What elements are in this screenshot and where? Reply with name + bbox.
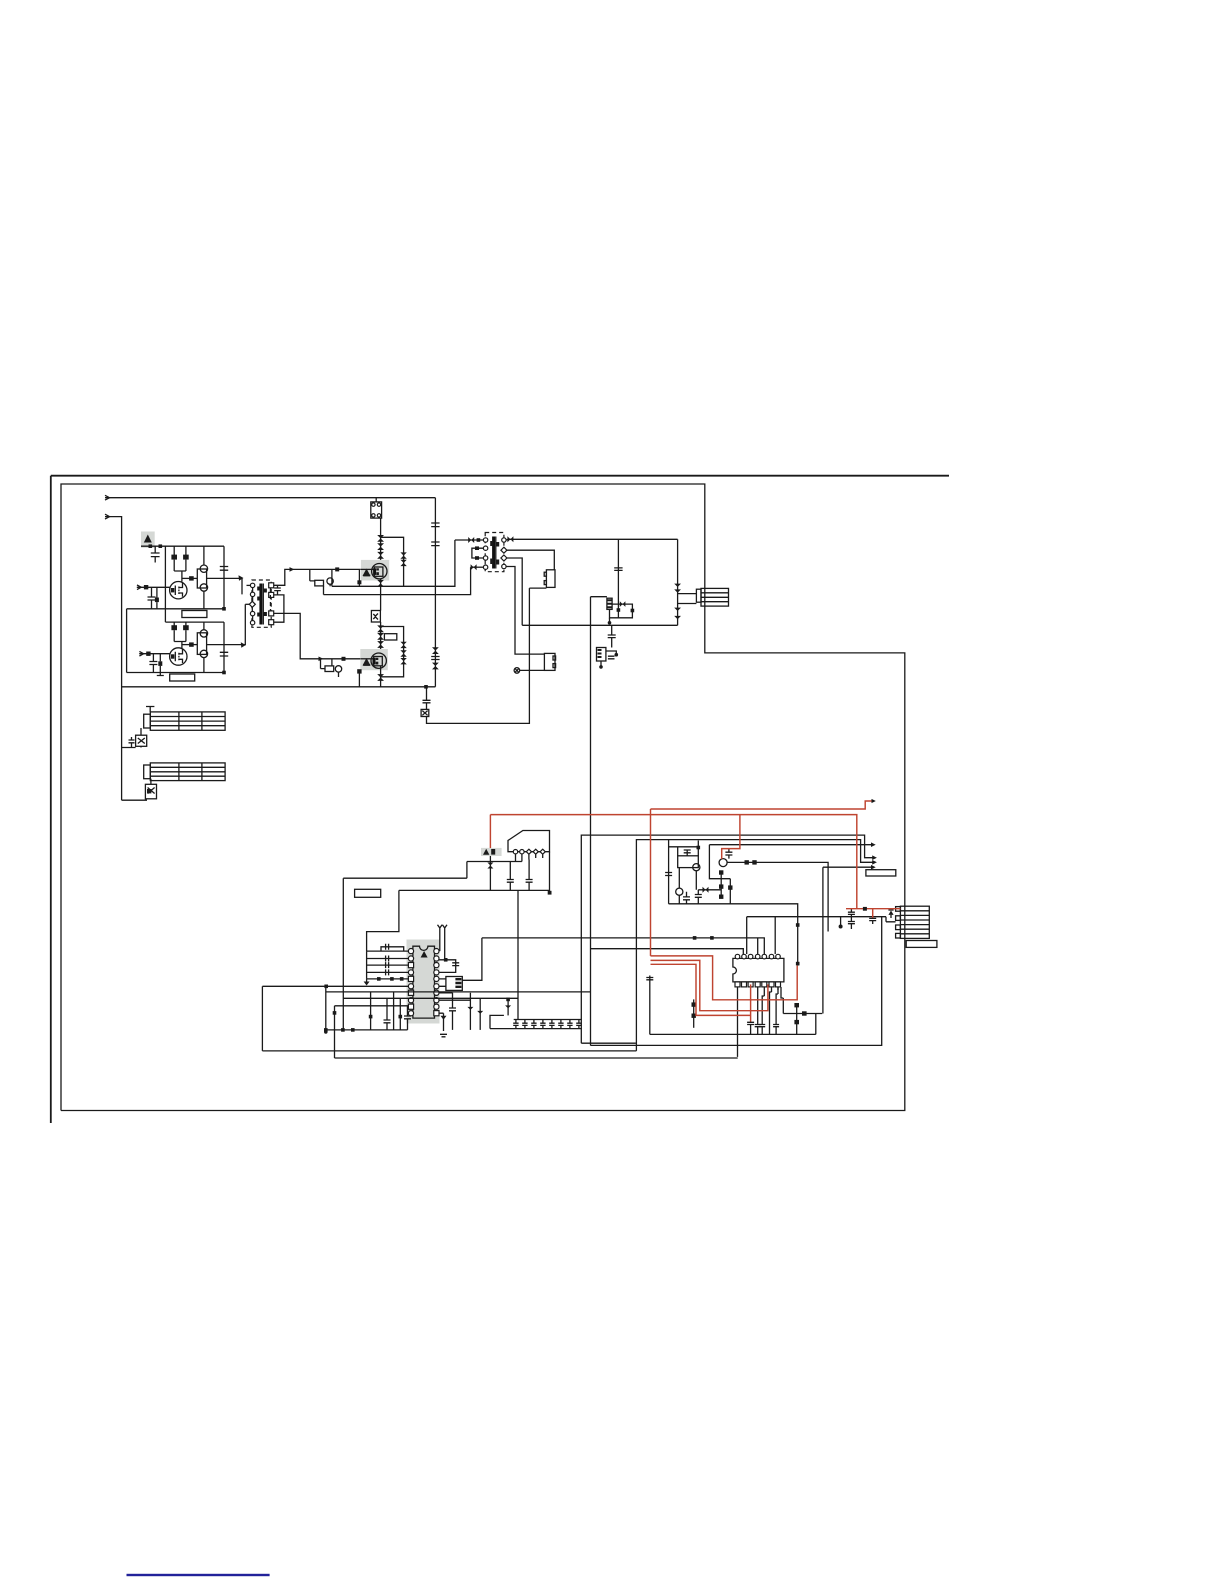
wire cell2 out xyxy=(207,604,246,644)
pin T2-4 xyxy=(483,565,487,569)
node gate2 arrow xyxy=(139,651,143,656)
transformer T1 body xyxy=(252,580,271,627)
wire sec pin6 out xyxy=(507,550,554,570)
filter FL1 xyxy=(546,570,555,588)
ic U4 pins left xyxy=(408,949,413,1016)
capacitor C25 xyxy=(386,956,389,962)
wire AC line 2 xyxy=(105,517,122,687)
wire feedback A xyxy=(467,861,522,863)
resistor array RA1 xyxy=(367,951,409,979)
connector CN2 xyxy=(900,906,929,938)
wire gate2 drive xyxy=(274,613,361,658)
box inner top xyxy=(636,840,874,1051)
vert V1 xyxy=(325,986,327,1032)
pin T1-7 square xyxy=(269,592,274,597)
warning triangle U4 xyxy=(421,951,428,958)
node AC-IN2 arrow xyxy=(105,514,110,519)
diode D18 xyxy=(507,999,509,1015)
diode D12 xyxy=(471,564,477,570)
resistor R4 xyxy=(182,577,197,579)
ic U4 highlight xyxy=(407,940,440,1024)
resistor block RB1 xyxy=(678,856,699,868)
SECTION: cell1 xyxy=(127,532,244,673)
diode D10 xyxy=(432,663,439,670)
label box REF2 xyxy=(170,674,195,681)
wire bulk rail xyxy=(434,498,436,687)
transistor K2 xyxy=(150,779,152,785)
wire cell1 out xyxy=(207,578,242,594)
wire main bottom bus xyxy=(122,686,436,688)
wire pin1 stub xyxy=(247,584,251,586)
transformer T2 body xyxy=(485,533,504,572)
pin T2-7 xyxy=(501,555,507,561)
SECTION: drvxfmr xyxy=(245,567,360,661)
wire red feedback top xyxy=(651,801,872,809)
gate2 network xyxy=(321,659,326,669)
wire R join xyxy=(174,571,186,582)
ic U6 top pins xyxy=(735,954,780,959)
capacitor C10 xyxy=(431,542,439,546)
node red arrow xyxy=(872,799,876,803)
wire L2 xyxy=(324,567,471,594)
wire U4 pin16 gnd xyxy=(439,1013,447,1037)
bottom long wire BL1 xyxy=(262,1050,636,1052)
pin PC1-5 xyxy=(540,849,545,854)
fuse F1 xyxy=(375,498,377,502)
capacitor C24 xyxy=(381,944,404,951)
wire red cap drop xyxy=(872,909,874,919)
resistor R6 xyxy=(185,622,187,626)
wire loop xyxy=(709,845,730,879)
wire U6 pin drops xyxy=(737,987,739,1057)
wire drain rail mid xyxy=(380,579,382,611)
connector CN2 stubs xyxy=(896,907,901,912)
resistor R18 xyxy=(693,999,695,1027)
diode D19 xyxy=(886,917,896,922)
pin T2-8 xyxy=(502,564,506,568)
link underline xyxy=(127,1574,270,1576)
border inner xyxy=(61,484,905,1111)
diode D9 xyxy=(432,647,439,654)
bottom bus BB xyxy=(326,1029,408,1031)
resistor R14 xyxy=(720,872,722,896)
capacitor C3 xyxy=(156,587,158,597)
bus B5 xyxy=(590,949,743,955)
wire cell1 bottom xyxy=(127,608,224,610)
node J3 xyxy=(222,671,226,675)
bottom wire BL4 xyxy=(590,917,881,1046)
ic U6 bottom pins xyxy=(735,982,781,987)
border outer left xyxy=(50,476,52,1123)
wire U3 out xyxy=(606,651,616,655)
capacitor C17 xyxy=(507,862,514,891)
label box REF3 xyxy=(384,634,396,640)
capacitor C19 xyxy=(665,873,672,876)
wire sec pin5 out xyxy=(506,538,677,541)
resistor R2 xyxy=(185,546,187,555)
wire pin3 in xyxy=(245,603,249,605)
warning label W1 xyxy=(141,532,155,548)
diode D5 xyxy=(377,625,384,632)
node arrow gate2 xyxy=(319,657,324,662)
wire caps left hook xyxy=(490,1015,504,1028)
wire base Q2 xyxy=(139,653,170,655)
mosfet Q8 xyxy=(360,658,373,660)
drop V7 capacitor xyxy=(404,1006,411,1030)
wire bus mid right xyxy=(747,916,886,918)
wire line E xyxy=(823,866,873,868)
bus B1 xyxy=(262,985,408,987)
wire long left vertical xyxy=(590,597,592,1046)
wire bus mid xyxy=(522,624,677,626)
diode D7 xyxy=(377,641,384,648)
resistor R17 xyxy=(796,1004,798,1035)
capacitor C30 xyxy=(848,909,855,917)
node arrow gate1 xyxy=(290,567,295,572)
wire pentagon right drop xyxy=(549,852,551,893)
resistor R12 xyxy=(617,608,621,612)
SECTION: rednet xyxy=(490,799,900,1035)
node J1 xyxy=(149,544,153,548)
resistor R13 xyxy=(631,609,635,613)
wire cell1 to cell2 feed xyxy=(164,546,166,622)
diode D13 xyxy=(507,536,513,542)
ic U4 pins right xyxy=(434,949,439,1016)
wire red supply xyxy=(490,815,856,909)
regulator U2 xyxy=(607,598,612,609)
ic U4 body xyxy=(413,946,435,1018)
diode D16 xyxy=(489,856,491,890)
connector table CN3 xyxy=(150,712,225,730)
diode D17 xyxy=(698,889,721,891)
gate1 network xyxy=(310,569,315,581)
resistor R7 xyxy=(146,652,150,656)
wire rail lower xyxy=(380,622,382,654)
wire FL1 bottom xyxy=(529,587,546,589)
resistor R16 xyxy=(783,1013,822,1015)
capacitor C27 xyxy=(386,969,389,975)
capacitor C21 xyxy=(683,892,690,904)
zener ZD1 xyxy=(469,993,471,1030)
wire left drop xyxy=(121,687,123,800)
wire RB1 top xyxy=(669,841,699,856)
wire feedback B xyxy=(343,862,467,879)
wire T1 pin stubs xyxy=(251,588,253,621)
wire cap rail xyxy=(646,976,653,1035)
SECTION: ic1area xyxy=(262,890,881,1058)
capacitor C2 xyxy=(148,587,156,609)
filter FL2 xyxy=(544,653,555,670)
regulator U3 xyxy=(597,648,606,662)
wire lower bus A xyxy=(399,889,550,891)
pin T2-1 xyxy=(483,538,487,542)
mosfet Q3 xyxy=(361,568,374,570)
bus B3 xyxy=(343,997,518,999)
label box REF6 xyxy=(906,941,937,948)
wire sec pin8 out xyxy=(506,567,544,655)
ground RA1 xyxy=(366,979,368,983)
wire red U6 pin drop xyxy=(750,984,752,1022)
capacitor C18 xyxy=(526,860,533,891)
wire S1 bottom xyxy=(669,904,798,917)
SECTION: mosfets xyxy=(310,498,530,724)
capacitor C5 xyxy=(149,654,157,673)
wire red main vertical xyxy=(650,809,652,956)
capacitor C20 xyxy=(684,850,691,856)
resistor R15 xyxy=(729,879,731,904)
pin T1-5 xyxy=(250,621,254,625)
SECTION: rightconn xyxy=(886,906,937,947)
pin T1-1 xyxy=(250,583,254,587)
wire PC1 pins down xyxy=(516,854,543,862)
amp sub-circuit: rail xyxy=(668,840,670,904)
wire primary pins 2-3 xyxy=(472,548,484,558)
diode D3 xyxy=(377,552,384,559)
wire base Q1 xyxy=(137,586,170,588)
SECTION: cell2 xyxy=(122,604,436,687)
wire U6 feeds xyxy=(747,917,776,954)
drop V5 xyxy=(393,992,395,1030)
pin T1-3 xyxy=(249,601,255,607)
node arrowE xyxy=(871,865,876,870)
pin T1-2 xyxy=(250,592,254,596)
wire red branch2 xyxy=(651,960,768,1010)
wire right of U4 xyxy=(439,993,470,1000)
bus B4 xyxy=(335,1005,409,1007)
node arrowA xyxy=(872,855,877,860)
pin T1-6 square xyxy=(269,583,274,588)
capacitor C29 xyxy=(449,993,456,1030)
pin PC1-4 xyxy=(533,849,538,854)
wire primary pin1 xyxy=(455,539,484,541)
ic U6 body xyxy=(733,958,784,982)
SECTION: bottomlink xyxy=(127,1574,270,1576)
jumper JP1 xyxy=(438,925,443,951)
resistor R8 xyxy=(182,644,197,646)
ground stub G3 xyxy=(840,917,842,926)
node J6 xyxy=(608,621,612,625)
wire cell1 top rail xyxy=(141,545,224,547)
snubber loop 2 xyxy=(381,627,404,677)
warning triangle Q8 xyxy=(363,658,371,666)
capacitor C6 xyxy=(159,654,161,662)
capacitor C1 xyxy=(151,546,160,562)
pin T2-5 xyxy=(502,538,506,542)
wire to resistor array xyxy=(367,890,399,951)
diode pair DP1 xyxy=(400,552,406,566)
zener ZD2 xyxy=(479,998,481,1030)
capacitor C12 xyxy=(423,687,431,710)
capacitor C28 xyxy=(452,963,459,966)
wire vert E xyxy=(822,867,824,1013)
capacitor C13 xyxy=(614,539,622,618)
pin T2-6 xyxy=(501,547,507,553)
transistor Q11 xyxy=(719,859,727,867)
border outer top xyxy=(51,475,949,477)
bottom step BL3 xyxy=(581,1042,636,1044)
ground stub U3 xyxy=(600,661,602,667)
wire to mid vertical xyxy=(427,588,530,723)
diode D8 xyxy=(377,674,384,681)
wire pins 7-9 loop xyxy=(274,595,284,622)
transistor Q9 xyxy=(693,864,700,871)
mosfet Q8 highlight xyxy=(360,649,388,670)
mosfet Q3 highlight xyxy=(361,560,389,581)
wire PC2 out xyxy=(462,938,482,980)
SECTION: output xyxy=(522,539,728,1045)
wire gate1 drive xyxy=(274,569,361,585)
node J4 xyxy=(424,685,428,689)
transistor Q2 xyxy=(170,648,187,665)
transistor Q1 xyxy=(170,582,187,599)
jumper JP2 xyxy=(442,925,447,959)
capacitor C31b xyxy=(848,917,855,929)
capacitor C32 xyxy=(869,918,876,924)
capacitor C4 xyxy=(220,546,228,609)
caps row rail xyxy=(514,1019,582,1021)
diode D4 xyxy=(377,580,384,587)
wire U4 right loop xyxy=(439,960,456,973)
pin T2-3 xyxy=(483,556,487,560)
node J2 xyxy=(222,607,226,611)
transistor pair Q6/Q7 xyxy=(197,633,206,655)
resistor R3 xyxy=(144,585,148,589)
resistor R11 xyxy=(475,556,479,560)
wire red to Q11 xyxy=(722,815,740,859)
node gate1 arrow xyxy=(137,585,141,590)
capacitor C16 xyxy=(129,737,135,748)
SECTION: mainxfmr xyxy=(455,533,678,674)
wire red branch1 xyxy=(651,956,798,1000)
capacitor C31 xyxy=(747,1022,754,1034)
drop V3 xyxy=(370,992,372,1030)
capacitor C23 xyxy=(725,849,732,859)
capacitor C11 xyxy=(431,657,439,660)
wire x797 stub xyxy=(797,917,799,966)
sense box RS1 xyxy=(371,611,380,623)
wire cell2 top rail xyxy=(165,621,224,623)
drop V6 xyxy=(399,998,401,1030)
optocoupler PC2 xyxy=(446,977,462,991)
capacitor C7 xyxy=(220,622,228,672)
wire rail to bus xyxy=(380,666,382,687)
node arrowC xyxy=(871,842,876,847)
capacitor C26 xyxy=(386,962,389,968)
snubber loop 1 xyxy=(381,537,404,586)
wire U2 out xyxy=(610,604,633,618)
wire L1 xyxy=(332,540,455,586)
photocoupler PC1 body xyxy=(508,831,550,852)
wire CN1 row3 xyxy=(678,603,697,605)
node AC-IN1 arrow xyxy=(105,495,110,500)
wire U2 in xyxy=(591,596,607,598)
pin T2-2 xyxy=(483,546,487,550)
resistor R10 xyxy=(475,546,479,550)
caps row CR xyxy=(513,1020,581,1029)
bottom long wire BL2 xyxy=(335,1057,738,1059)
wire Q11 emitter xyxy=(727,862,828,931)
resistor R5 xyxy=(173,622,175,626)
drop V4 capacitor xyxy=(384,998,391,1030)
vert V2 xyxy=(334,1006,336,1058)
wire primary pin4 xyxy=(471,566,484,568)
capacitor C14 xyxy=(608,625,616,647)
node J5 xyxy=(477,538,481,542)
wire sec pin7 out xyxy=(507,558,522,625)
wire AC line 1 xyxy=(105,497,435,499)
capacitor C9 xyxy=(431,523,439,527)
wire left long vertical xyxy=(342,878,344,1030)
wire R join 2 xyxy=(174,642,186,649)
rectifier D15 xyxy=(677,539,679,625)
thermistor TH1 xyxy=(421,709,429,716)
node out1 arrow xyxy=(239,575,244,581)
resistor R1 xyxy=(173,546,175,555)
diode D14 xyxy=(620,601,626,607)
diode D11 xyxy=(468,537,474,543)
wire CN3 stub xyxy=(146,707,154,712)
wire ground to box2 xyxy=(520,669,545,671)
capacitor C22 xyxy=(695,890,702,904)
SECTION: lower xyxy=(343,831,896,1051)
wire drain rail upper xyxy=(380,518,382,563)
SECTION: frame xyxy=(51,476,949,1123)
pin PC1-3 xyxy=(526,849,531,854)
wire left loop xyxy=(126,609,128,673)
wire cell2 bottom xyxy=(127,672,224,674)
SECTION: grids xyxy=(122,687,226,800)
pin PC1-2 xyxy=(520,850,524,854)
diode pair DP2 xyxy=(400,642,406,665)
transistor pair Q4/Q5 xyxy=(197,569,206,588)
resistor R9 xyxy=(358,671,360,686)
box outer top xyxy=(581,835,874,1043)
SECTION: ic2area xyxy=(646,909,886,1057)
warning label W2 xyxy=(481,848,502,856)
ground symbol GX xyxy=(514,668,520,674)
SECTION: topleft xyxy=(105,495,435,687)
wire red to CN2 xyxy=(846,908,900,910)
warning triangle Q3 xyxy=(363,569,371,577)
wire red branch3 xyxy=(651,964,751,1015)
connector CN1 xyxy=(696,589,701,602)
label box REF1 xyxy=(182,611,207,618)
label box REF5 xyxy=(866,870,896,876)
bus B2 xyxy=(326,991,591,993)
diode D1 xyxy=(377,535,384,542)
wire CN1 row1 xyxy=(678,593,697,595)
wire line C xyxy=(709,844,872,846)
transistor K1 xyxy=(140,728,142,735)
node bus squares xyxy=(377,977,381,981)
transistor Q10 xyxy=(676,888,683,895)
connector table CN4 xyxy=(150,763,225,781)
pin T1-4 xyxy=(250,611,254,615)
label box REF4 xyxy=(355,889,381,897)
pin T1-8 square xyxy=(269,611,274,616)
pin T1-9 square xyxy=(269,620,274,625)
diode D6 xyxy=(377,633,384,640)
vert mid V8 xyxy=(517,890,519,1019)
node arrowB xyxy=(872,860,877,865)
pin PC1-1 xyxy=(513,850,517,854)
wire fb bus xyxy=(482,937,765,939)
node out2 arrow xyxy=(241,642,246,648)
capacitor C15 xyxy=(608,656,615,659)
wire red drop W2 xyxy=(489,815,491,848)
diode D2 xyxy=(377,543,384,550)
capacitor C8 xyxy=(274,585,281,595)
